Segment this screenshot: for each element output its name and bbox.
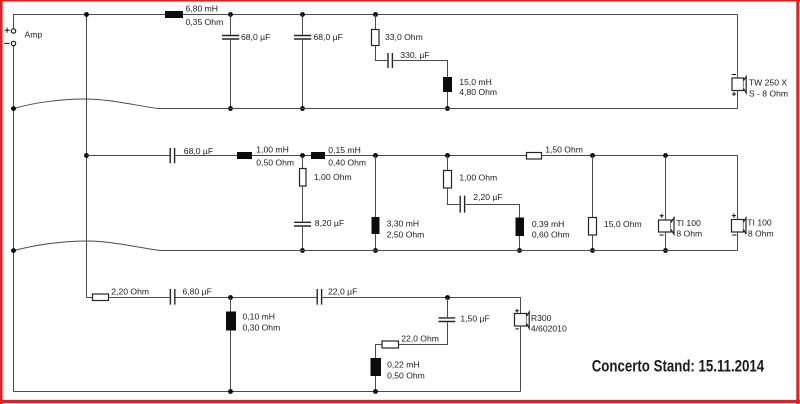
wire inductor to bottom rail [375,376,377,392]
wire capacitor to corner [322,298,520,314]
svg-text:1,50 µF: 1,50 µF [460,313,489,323]
minus sign TI100 #2 [732,234,736,236]
wire to resistor [375,15,377,30]
wire resistor to capacitor elbow [376,46,388,61]
node mid return TI100 [663,248,668,253]
svg-text:1,50 Ohm: 1,50 Ohm [545,145,583,155]
svg-text:0,60 Ohm: 0,60 Ohm [532,230,570,240]
inductor 15,0 mH [443,77,452,92]
minus sign [4,42,9,44]
svg-text:15,0 mH: 15,0 mH [459,77,491,87]
wire junction to speaker [665,156,667,221]
wire junction to resistor [447,156,449,171]
svg-text:0,15 mH: 0,15 mH [328,145,360,155]
wire resistor to capacitor [302,186,304,251]
speaker TW 250 X [732,78,744,91]
svg-text:22,0 Ohm: 22,0 Ohm [401,334,439,344]
terminal - [11,41,15,45]
svg-text:4,80 Ohm: 4,80 Ohm [459,87,497,97]
node mid rail junction 3 [445,153,450,158]
svg-text:4/602010: 4/602010 [531,324,567,334]
inductor 3,30 mH [372,217,380,234]
svg-text:1,00 Ohm: 1,00 Ohm [459,172,497,182]
node bus top [84,12,89,17]
node bottom rail 0,10 [228,389,233,394]
wire node to inductor [230,298,232,312]
svg-text:Concerto Stand: 15.11.2014: Concerto Stand: 15.11.2014 [592,356,765,375]
minus sign tweeter [732,74,736,76]
node mid return left [11,248,16,253]
node mid rail junction 5 [663,153,668,158]
capacitor 330, uF [388,53,392,68]
node mid return 8,20 [300,248,305,253]
node mid return 0,39 [517,248,522,253]
plus sign tweeter [732,92,736,96]
wire resistor to return [592,235,594,251]
capacitor 68,0 uF series [170,148,174,163]
node mid rail start [84,153,89,158]
capacitor 22,0 uF [317,289,321,305]
svg-text:330, µF: 330, µF [400,50,429,60]
node C1 top [228,12,233,17]
node C2 top [300,12,305,17]
svg-text:TW 250 X: TW 250 X [749,78,787,88]
minus sign R300 [515,328,519,330]
capacitor 8,20 uF [294,222,311,226]
capacitor 68,0 uF #1 [230,15,232,109]
node bottom branch 1 [228,295,233,300]
svg-text:22,0 µF: 22,0 µF [328,286,357,296]
inductor 6,80 mH [165,11,183,18]
wire speaker to bottom rail [520,326,522,392]
wire resistor elbow to capacitor [448,188,460,205]
wire inductor to return [375,234,377,251]
wire capacitor to node [176,297,317,299]
node mid return 15,0 [590,248,595,253]
node top return left [11,106,16,111]
svg-text:2,20 µF: 2,20 µF [473,192,502,202]
node bottom branch 2 [445,295,450,300]
wire inductor to return rail [447,92,449,109]
resistor 1,00 Ohm shunt [300,169,307,187]
node mid rail junction 2 [373,153,378,158]
capacitor 2,20 uF [460,196,464,213]
terminal + [11,29,15,33]
resistor 2,20 Ohm [93,294,109,301]
svg-text:TI 100: TI 100 [676,218,701,228]
wire capacitor to inductor [465,205,519,218]
wire junction to inductor [375,156,377,218]
inductor 1,00 mH [237,152,252,159]
svg-text:8 Ohm: 8 Ohm [748,228,774,238]
node RC branch top [373,12,378,17]
resistor 15,0 Ohm [589,218,597,236]
wire speaker to return [665,232,667,251]
capacitor 1,50 uF [439,318,456,322]
wire resistor to capacitor [109,297,170,299]
svg-text:8,20 µF: 8,20 µF [315,218,344,228]
svg-text:0,39 mH: 0,39 mH [532,219,564,229]
plus sign R300 [515,309,519,313]
wire top rail [14,15,738,29]
svg-text:8 Ohm: 8 Ohm [676,229,702,239]
wire speaker 2 to return [737,232,739,251]
svg-text:2,20 Ohm: 2,20 Ohm [111,286,149,296]
svg-text:0,50 Ohm: 0,50 Ohm [387,370,425,380]
resistor 1,00 Ohm RC [444,171,452,189]
svg-text:0,30 Ohm: 0,30 Ohm [243,322,281,332]
wire tweeter to return rail [737,91,739,109]
wire left vertical minus rail [13,46,15,392]
wire node to capacitor [447,298,449,318]
wire main vertical bus [86,15,88,298]
wire tweeter feed [737,15,739,79]
svg-text:0,40 Ohm: 0,40 Ohm [328,158,366,168]
minus sign TI100 [659,234,663,236]
speaker TI 100 #2 [732,220,744,233]
wire capacitor elbow to resistor [399,322,448,344]
capacitor 6,80 uF [170,289,174,305]
svg-text:R300: R300 [531,313,552,323]
node mid rail junction 1 [300,153,305,158]
plus sign [5,28,10,33]
svg-text:0,35 Ohm: 0,35 Ohm [186,17,224,27]
wire inductor to bottom rail [230,331,232,392]
svg-text:3,30 mH: 3,30 mH [387,219,419,229]
node inductor return [445,106,450,111]
wire mid rail to speaker 2 [737,156,739,220]
speaker R300 [515,314,527,327]
svg-text:68,0 µF: 68,0 µF [241,32,270,42]
svg-text:33,0 Ohm: 33,0 Ohm [385,32,423,42]
svg-text:1,00 mH: 1,00 mH [256,145,288,155]
svg-text:6,80 mH: 6,80 mH [186,4,218,14]
wire resistor elbow to inductor [376,345,383,359]
svg-text:0,22 mH: 0,22 mH [387,360,419,370]
svg-text:15,0 Ohm: 15,0 Ohm [604,219,642,229]
wire mid rail [87,155,738,157]
inductor 0,15 mH [311,152,325,159]
svg-text:68,0 µF: 68,0 µF [314,32,343,42]
node bottom rail 0,22 [373,389,378,394]
capacitor 68,0 uF #2 [302,15,304,109]
wire bottom rail [14,391,521,393]
wire bottom branch elbow [87,297,93,299]
inductor 0,10 mH [226,312,236,331]
node C2 bottom [300,106,305,111]
svg-text:TI 100: TI 100 [747,218,772,228]
wire junction to resistor [592,156,594,218]
inductor 0,39 mH [516,218,525,237]
wire mid return rail wavy [14,241,738,251]
node C1 bottom [228,106,233,111]
svg-text:6,80 µF: 6,80 µF [183,286,212,296]
speaker TI 100 #1 [659,220,672,232]
resistor 22,0 Ohm [382,341,399,348]
inductor 0,22 mH [371,358,382,376]
wire junction to resistor [302,156,304,169]
plus sign TI100 [660,214,664,218]
node mid return 3,30 [373,248,378,253]
svg-text:S - 8 Ohm: S - 8 Ohm [749,89,788,99]
plus sign TI100 #2 [732,214,736,218]
wire top return rail wavy [14,99,738,109]
svg-text:2,50 Ohm: 2,50 Ohm [387,229,425,239]
wire capacitor to inductor [393,61,447,78]
resistor 1,50 Ohm series [527,153,542,160]
svg-text:Amp: Amp [25,30,43,40]
svg-text:0,50 Ohm: 0,50 Ohm [256,157,294,167]
svg-text:1,00 Ohm: 1,00 Ohm [314,172,352,182]
resistor 33,0 Ohm [372,30,380,46]
node mid rail junction 4 [590,153,595,158]
svg-text:0,10 mH: 0,10 mH [243,312,275,322]
svg-text:68,0 µF: 68,0 µF [184,146,213,156]
wire inductor to return [519,236,521,251]
